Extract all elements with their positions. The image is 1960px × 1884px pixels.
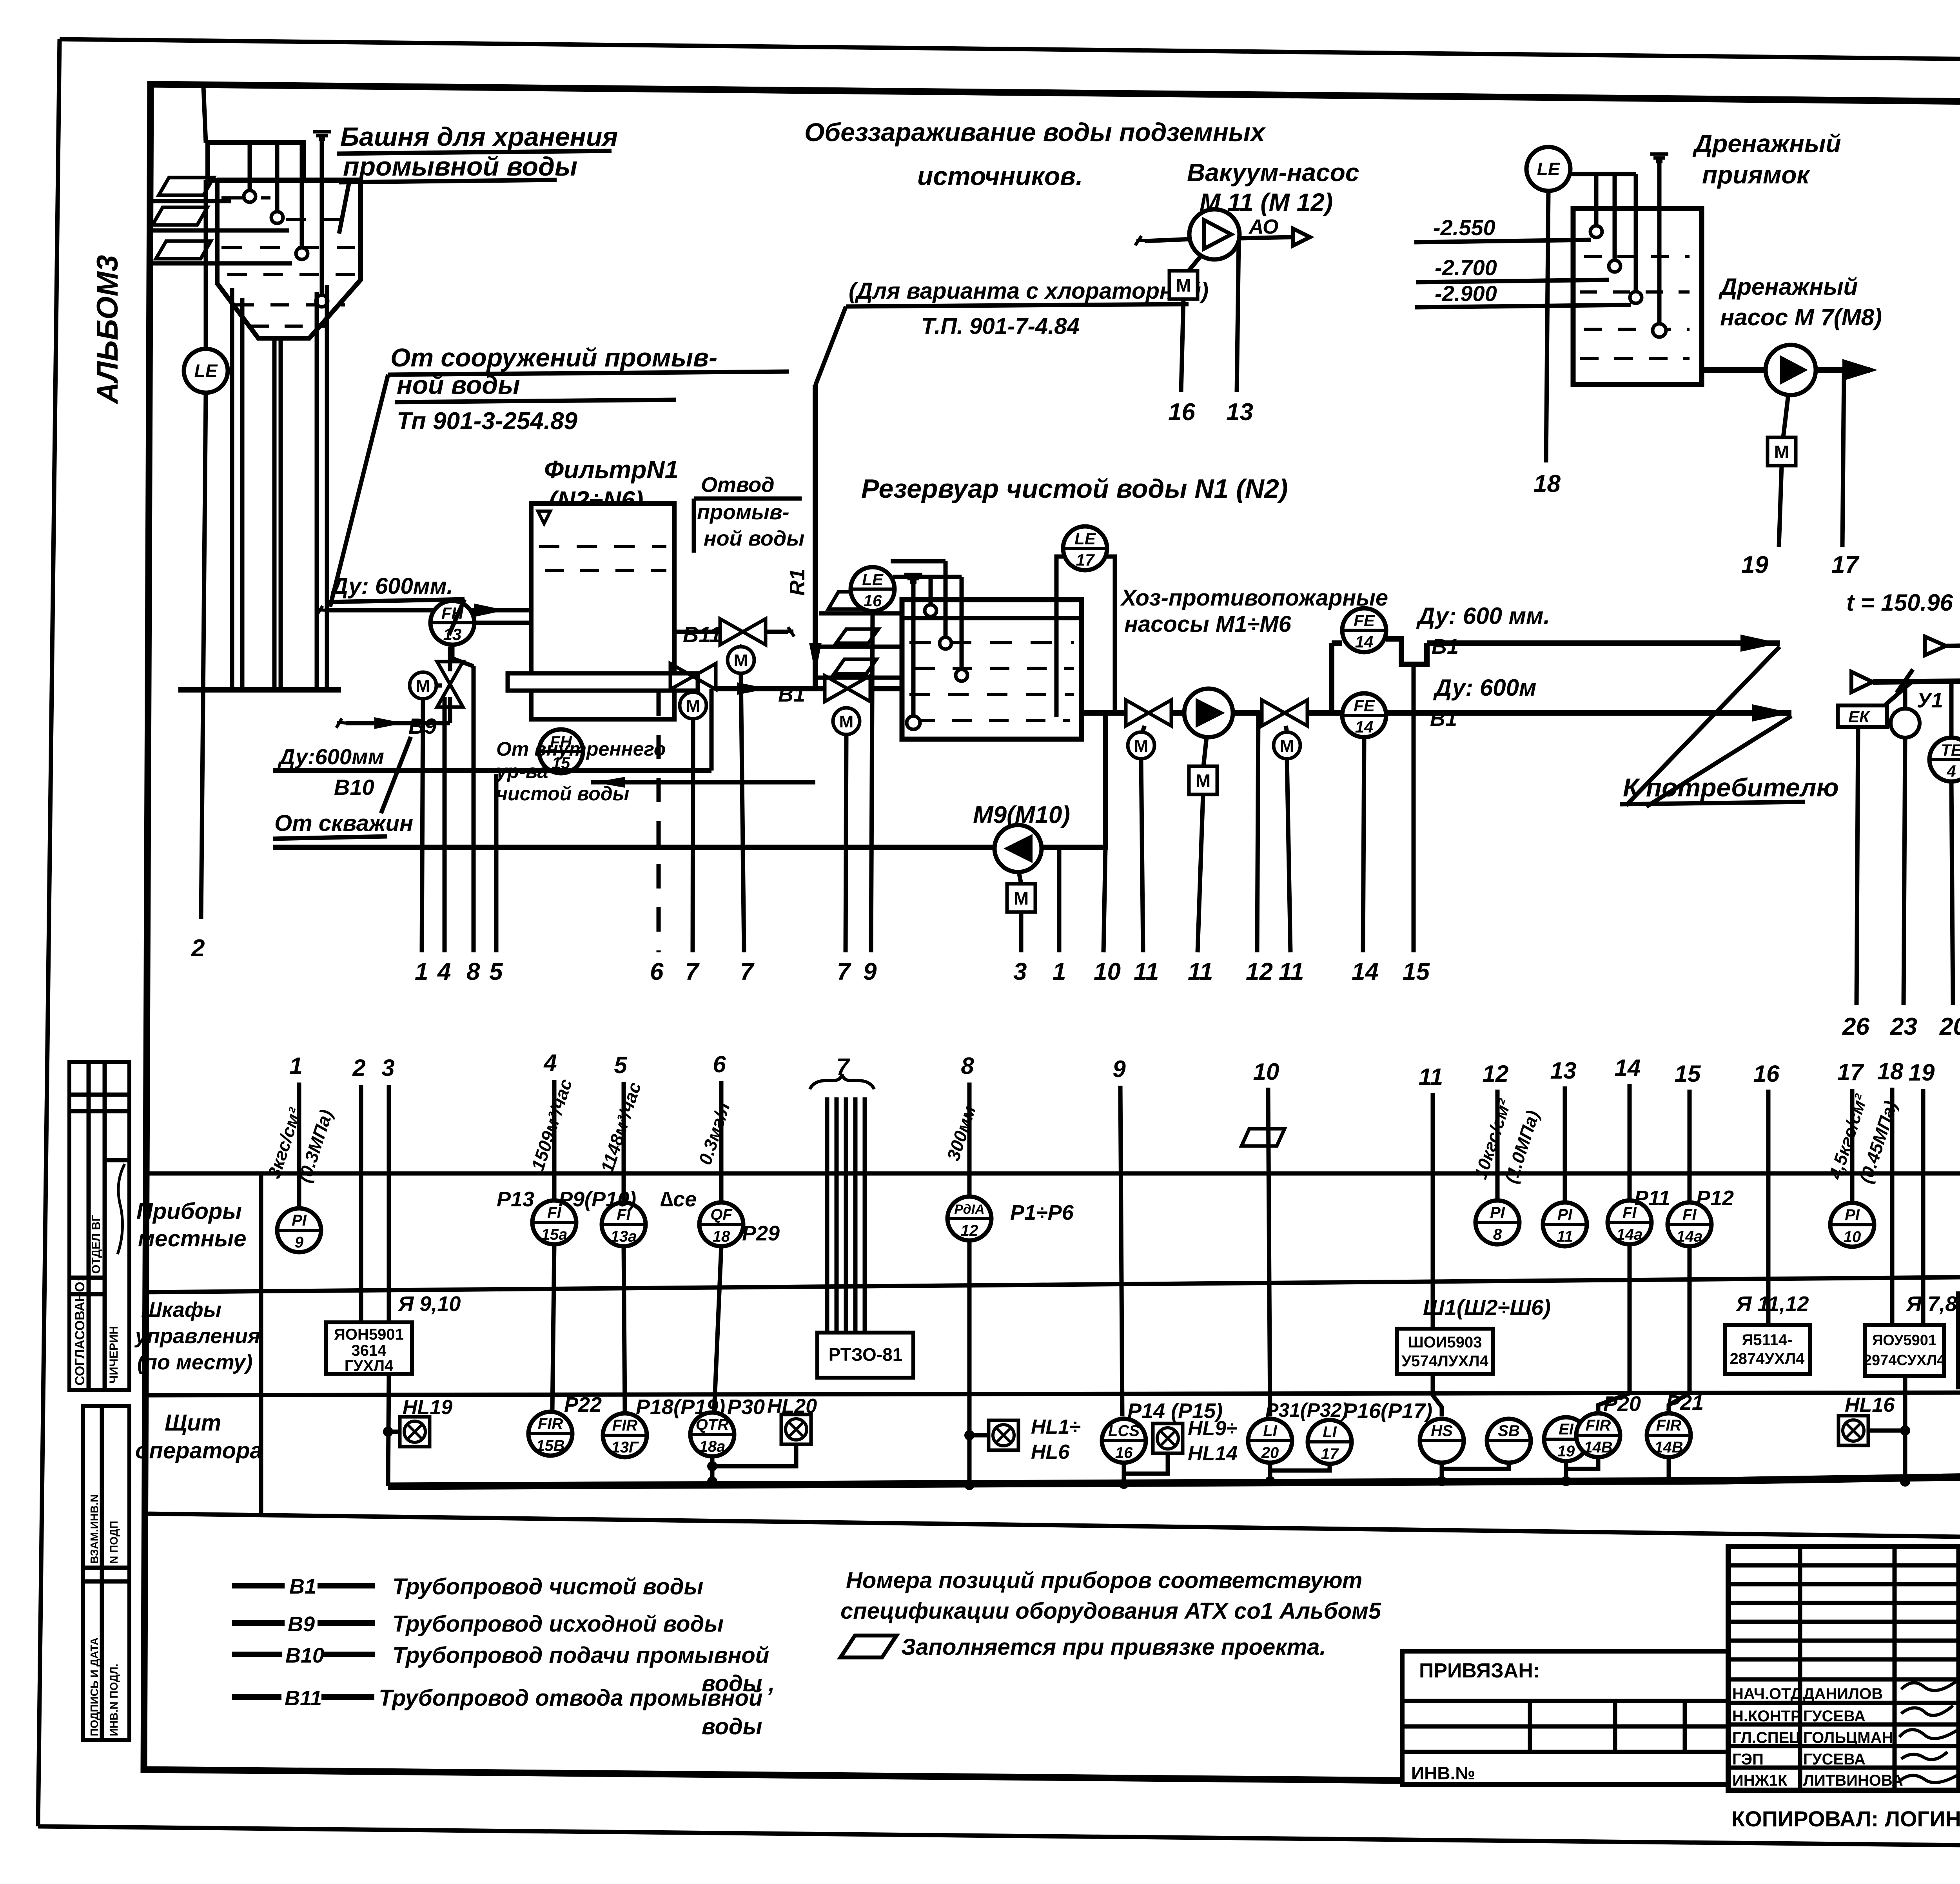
svg-text:В10: В10 [285, 1644, 324, 1667]
svg-text:У574ЛУХЛ4: У574ЛУХЛ4 [1401, 1353, 1488, 1370]
svg-text:В1: В1 [1430, 707, 1457, 731]
legend B10 [232, 1652, 282, 1657]
svg-text:ГУСЕВА: ГУСЕВА [1803, 1708, 1866, 1725]
svg-text:6: 6 [650, 958, 664, 985]
hot inlet arrow [1925, 636, 1946, 655]
svg-text:10: 10 [1253, 1059, 1279, 1085]
svg-text:11: 11 [1419, 1064, 1443, 1090]
svg-text:Р21: Р21 [1666, 1391, 1704, 1414]
wire LE pit down [1546, 192, 1548, 462]
motor M suction valve [1128, 732, 1154, 759]
valve bowtie filter outlet [670, 664, 716, 689]
pump M11 circle [1189, 209, 1240, 259]
pump M9 [995, 825, 1042, 872]
pipe R1 vertical [813, 385, 818, 689]
svg-text:4: 4 [1946, 762, 1956, 780]
leader diagonal [815, 306, 846, 385]
svg-text:Резервуар чистой воды N1 (N2): Резервуар чистой воды N1 (N2) [861, 474, 1288, 504]
motor M filter outlet [680, 692, 706, 719]
outer border left line [38, 39, 60, 1826]
instrument FIR-14В [1576, 1413, 1620, 1457]
svg-text:Трубопровод чистой воды: Трубопровод чистой воды [392, 1574, 703, 1599]
leader [449, 599, 465, 635]
wire 20 [1951, 782, 1953, 1005]
svg-text:13: 13 [1226, 399, 1253, 426]
instrument LE tower [184, 349, 228, 393]
leader EK to damper [1886, 683, 1911, 705]
underline [339, 180, 557, 182]
wire line 11b [1198, 794, 1203, 952]
svg-text:15В: 15В [536, 1437, 564, 1454]
wire line 10 [1103, 847, 1105, 952]
svg-text:18: 18 [713, 1228, 730, 1245]
water dashes pit [1580, 257, 1690, 359]
wire valve stem [741, 645, 742, 647]
svg-text:ЧИЧЕРИН: ЧИЧЕРИН [107, 1326, 120, 1384]
air intake arrow [1851, 672, 1873, 692]
svg-text:12: 12 [1483, 1061, 1509, 1087]
stem [1189, 257, 1200, 271]
svg-text:Р20: Р20 [1603, 1392, 1641, 1416]
leader B9 to well note [381, 737, 411, 813]
pipe B1 lower outgoing [1386, 704, 1791, 722]
svg-text:8: 8 [961, 1053, 974, 1079]
svg-text:HL1÷: HL1÷ [1031, 1416, 1081, 1438]
instrument PI-11 [1543, 1202, 1587, 1246]
water dashes [539, 547, 666, 570]
svg-text:14: 14 [1355, 718, 1374, 736]
svg-text:От внутреннего: От внутреннего [496, 738, 666, 760]
svg-text:HL16: HL16 [1845, 1394, 1895, 1416]
pipe inlet [1145, 239, 1192, 241]
svg-text:LI: LI [1263, 1422, 1277, 1440]
svg-text:Р13: Р13 [497, 1188, 534, 1211]
leader to tank [339, 183, 349, 234]
dip tubes reservoir [929, 577, 933, 605]
svg-text:18а: 18а [699, 1438, 726, 1455]
instrument QTR-18a [690, 1413, 734, 1456]
pipe upper jog [1386, 639, 1427, 664]
instrument LE pit [1526, 147, 1570, 191]
svg-text:Щит: Щит [165, 1410, 221, 1436]
tower support columns [232, 285, 327, 690]
level plate 2 [836, 629, 878, 643]
svg-text:РТЗО-81: РТЗО-81 [829, 1344, 903, 1365]
svg-text:АО: АО [1248, 216, 1278, 238]
svg-text:13а: 13а [611, 1228, 637, 1245]
svg-text:HL14: HL14 [1188, 1442, 1238, 1465]
svg-text:4: 4 [543, 1050, 557, 1076]
instrument FH-13 [430, 601, 474, 645]
svg-text:-2.550: -2.550 [1433, 215, 1495, 240]
svg-text:Н.КОНТР: Н.КОНТР [1732, 1708, 1801, 1725]
svg-text:Р31(Р32): Р31(Р32) [1265, 1399, 1348, 1421]
wire c4 [552, 1080, 557, 1200]
stem [1019, 872, 1021, 884]
leader diagonal to filter feed [330, 375, 388, 607]
wire LE down to 2 [201, 393, 206, 919]
lamp HL1-HL6 [989, 1420, 1018, 1450]
legend B9 [232, 1620, 285, 1626]
svg-text:(Для варианта с хлораторной): (Для варианта с хлораторной) [849, 278, 1209, 304]
svg-text:20: 20 [1261, 1444, 1279, 1462]
instrument LI-17 [1308, 1420, 1352, 1464]
svg-text:Ду: 600мм.: Ду: 600мм. [330, 573, 453, 599]
U link HS SB [1442, 1463, 1509, 1469]
stem [1783, 395, 1788, 437]
svg-text:ИНВ.№: ИНВ.№ [1411, 1763, 1475, 1783]
pipe B1 to reservoir [870, 686, 902, 691]
wire c1 [297, 1083, 301, 1208]
LE16 manifold [891, 561, 962, 577]
lamp HL16 [1838, 1416, 1868, 1445]
svg-text:ИНВ.N ПОДЛ.: ИНВ.N ПОДЛ. [108, 1664, 120, 1736]
ground dip tube pit [1657, 161, 1662, 323]
tank: tower storage tank body [217, 180, 361, 338]
parallelogram note [840, 1636, 897, 1657]
svg-text:10: 10 [1844, 1228, 1861, 1246]
svg-text:ГУСЕВА: ГУСЕВА [1803, 1751, 1866, 1768]
underline [388, 372, 789, 375]
level plate 3 [834, 659, 877, 674]
wire line 14 [1363, 738, 1364, 952]
pipe to FE [1307, 710, 1342, 716]
svg-text:R1: R1 [786, 569, 809, 596]
wire 26 [1857, 727, 1858, 1005]
wire c13 [1563, 1086, 1567, 1202]
svg-text:управления: управления [134, 1324, 260, 1348]
level plate 1 [159, 178, 214, 195]
svg-text:2874УХЛ4: 2874УХЛ4 [1730, 1350, 1805, 1367]
wire LE17 dip [1056, 557, 1115, 717]
svg-text:FIR: FIR [538, 1415, 563, 1432]
svg-text:HL6: HL6 [1031, 1441, 1070, 1463]
wire 17 [1842, 370, 1844, 547]
svg-text:FЕ: FЕ [1354, 611, 1376, 630]
svg-text:ПРИВЯЗАН:: ПРИВЯЗАН: [1419, 1659, 1540, 1682]
svg-text:ЕI: ЕI [1559, 1421, 1574, 1438]
instrument FIR-13Г [603, 1413, 647, 1457]
svg-text:Р9(Р10): Р9(Р10) [559, 1188, 636, 1211]
svg-text:АЛЬБОМ3: АЛЬБОМ3 [91, 255, 124, 404]
cabinet box Я5114 [1725, 1325, 1810, 1374]
pipe upper branch [1332, 640, 1342, 646]
svg-text:промыв-: промыв- [697, 500, 789, 524]
svg-text:От скважин: От скважин [274, 811, 413, 836]
instrument LCS-16 [1102, 1419, 1146, 1463]
svg-text:Дренажный: Дренажный [1718, 274, 1858, 300]
svg-text:В1: В1 [289, 1575, 316, 1598]
svg-text:В9: В9 [288, 1612, 315, 1636]
svg-text:Я 11,12: Я 11,12 [1735, 1292, 1809, 1316]
instrument FI-14a2 [1668, 1202, 1711, 1246]
svg-text:18: 18 [1877, 1058, 1904, 1084]
tank: clean water reservoir [902, 600, 1082, 739]
instrument FE-14 lower [1342, 693, 1386, 737]
svg-text:HL20: HL20 [767, 1395, 817, 1418]
svg-text:Тп 901-3-254.89: Тп 901-3-254.89 [397, 408, 578, 435]
wire line8 [472, 666, 476, 952]
outer border bottom line [38, 1826, 1960, 1851]
tank: tower storage tank cap [208, 143, 304, 180]
svg-text:11: 11 [1279, 958, 1304, 985]
wire c18 [1890, 1088, 1895, 1325]
cabinet box ШОИ5903 [1397, 1329, 1493, 1374]
svg-text:Р12: Р12 [1696, 1186, 1734, 1210]
U link LI pair [1270, 1463, 1330, 1471]
water dashes [221, 198, 355, 326]
signatures squiggles [1899, 1681, 1960, 1782]
svg-text:Ду: 600 мм.: Ду: 600 мм. [1416, 603, 1550, 629]
motor M under B11 valve [728, 647, 754, 673]
svg-text:14: 14 [1355, 633, 1374, 651]
level leader lines [819, 611, 902, 616]
svg-text:В10: В10 [334, 775, 374, 800]
svg-text:9: 9 [863, 958, 877, 985]
wire 16 [1181, 299, 1183, 392]
svg-text:Ш1(Ш2÷Ш6): Ш1(Ш2÷Ш6) [1423, 1295, 1551, 1320]
underline [395, 400, 676, 402]
motor valve M on riser [410, 672, 436, 699]
svg-text:ЛИТВИНОВА: ЛИТВИНОВА [1803, 1772, 1903, 1789]
svg-text:17: 17 [1837, 1059, 1864, 1085]
arrow from internal reservoir [591, 777, 815, 788]
svg-text:7: 7 [740, 958, 755, 985]
wire riser [448, 647, 452, 671]
svg-text:16: 16 [1115, 1444, 1133, 1462]
svg-text:ной воды: ной воды [397, 370, 520, 399]
motor box M7 [1768, 437, 1796, 466]
valve bowtie pump suction [1126, 700, 1171, 726]
dip tubes pit [1594, 174, 1599, 226]
wire line6 dashed [657, 692, 661, 952]
wire box5 down [1903, 1376, 1907, 1481]
valve bowtie B1 motorized [825, 676, 870, 702]
wire LE up [204, 180, 208, 349]
wire c5 [622, 1082, 626, 1202]
actuator U1 [1891, 709, 1920, 738]
svg-text:Р30: Р30 [727, 1395, 765, 1419]
svg-text:9: 9 [1112, 1056, 1126, 1082]
svg-text:QF: QF [710, 1206, 733, 1223]
lamp HL9-HL14 [1153, 1423, 1183, 1453]
svg-text:Хоз-противопожарные: Хоз-противопожарные [1120, 585, 1388, 611]
wire c9 [1120, 1086, 1122, 1416]
svg-text:М9(М10): М9(М10) [973, 801, 1070, 829]
svg-text:14В: 14В [1584, 1439, 1612, 1456]
wire M9 to 3 [1019, 912, 1024, 952]
svg-text:Р11: Р11 [1634, 1186, 1670, 1210]
wire line5 [494, 774, 499, 952]
svg-text:ЯОУ5901: ЯОУ5901 [1872, 1332, 1936, 1349]
lamp HL20 [781, 1414, 811, 1444]
wire c8 [967, 1083, 972, 1197]
svg-text:оператора: оператора [135, 1438, 263, 1463]
svg-text:2: 2 [352, 1055, 365, 1081]
ground level line under tower [178, 687, 341, 693]
ground symbol pit [1650, 154, 1668, 161]
tank top rim line [217, 178, 361, 183]
svg-text:Ду:600мм: Ду:600мм [278, 744, 384, 769]
svg-text:РI: РI [1490, 1204, 1505, 1221]
svg-text:13: 13 [1550, 1057, 1577, 1084]
svg-text:12: 12 [1246, 958, 1273, 985]
level leader 2 [150, 228, 289, 233]
svg-text:Приборы: Приборы [136, 1199, 242, 1224]
svg-text:ур-ва: ур-ва [495, 760, 548, 782]
svg-text:19: 19 [1741, 551, 1768, 578]
svg-text:спецификации оборудования АТХ: спецификации оборудования АТХ со1 Альбом… [840, 1598, 1381, 1624]
branch riser [1329, 643, 1334, 713]
pipe B1 from filter [717, 682, 825, 695]
row separator line 3 [144, 1392, 1960, 1395]
svg-text:5: 5 [614, 1052, 628, 1078]
damper [1896, 669, 1913, 693]
svg-text:2: 2 [191, 935, 205, 962]
underline [273, 836, 387, 839]
svg-text:FIR: FIR [612, 1417, 638, 1434]
instrument PdIA-12 [947, 1197, 991, 1240]
svg-text:15: 15 [1675, 1061, 1701, 1087]
wire line 1b [1057, 847, 1062, 952]
wire valve stub [436, 684, 442, 688]
svg-text:15а: 15а [541, 1226, 568, 1243]
privyazan box [1402, 1651, 1728, 1784]
svg-text:ГУХЛ4: ГУХЛ4 [345, 1357, 394, 1374]
signature names [1732, 1685, 1903, 1789]
svg-text:Обеззараживание воды подземных: Обеззараживание воды подземных [804, 118, 1266, 147]
instrument HS row3 [1420, 1419, 1464, 1463]
pipe [1233, 710, 1262, 716]
svg-text:17: 17 [1831, 551, 1859, 578]
svg-text:9: 9 [295, 1234, 304, 1251]
svg-text:26: 26 [1842, 1013, 1869, 1040]
pipe B10 [273, 768, 711, 773]
lamp HL19 [400, 1417, 430, 1447]
legend B1 [232, 1583, 285, 1588]
ground symbol reservoir [904, 575, 922, 582]
svg-text:FЕ: FЕ [1354, 696, 1376, 715]
wire 13 [1237, 241, 1239, 392]
svg-text:ОТДЕЛ ВГ: ОТДЕЛ ВГ [90, 1215, 103, 1274]
wire line 11a [1141, 759, 1143, 952]
svg-text:10: 10 [1094, 958, 1121, 985]
svg-text:3614: 3614 [352, 1342, 387, 1359]
legend B11 [232, 1694, 281, 1700]
svg-text:8: 8 [1493, 1226, 1502, 1243]
stem TE4 [1949, 682, 1954, 737]
instrument PI-9 [277, 1208, 321, 1252]
underline [329, 599, 465, 602]
wire line 15 [1412, 664, 1416, 952]
svg-text:приямок: приямок [1702, 161, 1811, 189]
svg-text:ТЕ: ТЕ [1941, 741, 1960, 759]
svg-text:чистой воды: чистой воды [496, 783, 629, 805]
wire HL19 stub [388, 1430, 400, 1434]
revision rows [1728, 1565, 1960, 1768]
U link EI FIR [1566, 1457, 1598, 1469]
svg-text:НS: НS [1431, 1422, 1453, 1440]
svg-text:-2.900: -2.900 [1435, 281, 1497, 306]
underline [1620, 802, 1805, 804]
instrument PI-8 [1475, 1200, 1519, 1244]
instrument FI-13a [602, 1202, 646, 1246]
pipe B1 upper outgoing [1427, 635, 1780, 652]
svg-text:11: 11 [1188, 958, 1213, 985]
svg-text:LЕ: LЕ [194, 361, 218, 381]
instrument PI-10 [1830, 1203, 1874, 1247]
instrument FH-15 [539, 729, 583, 773]
instrument FE-14 upper [1342, 608, 1386, 652]
svg-text:1: 1 [415, 958, 428, 985]
wire line1 [422, 700, 423, 952]
svg-text:Трубопровод отвода промывной: Трубопровод отвода промывной [379, 1685, 762, 1711]
instrument SB row3 [1487, 1419, 1531, 1463]
svg-text:14: 14 [1352, 958, 1379, 985]
electrode dip tube 1 [248, 143, 252, 191]
svg-text:7: 7 [685, 958, 700, 985]
svg-text:В11: В11 [683, 622, 722, 647]
instrument QF-18 [699, 1202, 743, 1246]
svg-text:SВ: SВ [1498, 1422, 1520, 1440]
stamp box A (СОГЛАСОВАНО) [69, 1062, 129, 1390]
svg-text:13Г: 13Г [611, 1439, 639, 1456]
level leader 1 [149, 199, 231, 203]
pipe [1171, 710, 1184, 716]
svg-text:16: 16 [864, 591, 882, 610]
valve bowtie vertical [437, 662, 463, 707]
electrode dip tube 2 [275, 143, 279, 212]
tank: drain pit [1573, 209, 1702, 384]
svg-text:t = 150.96 °С: t = 150.96 °С [1846, 589, 1960, 616]
ground symbol on tank [313, 132, 331, 139]
svg-text:LСS: LСS [1108, 1422, 1140, 1440]
svg-text:HL19: HL19 [403, 1396, 452, 1419]
svg-text:12: 12 [961, 1222, 978, 1239]
wire line 7c from outlet M [693, 720, 693, 952]
svg-text:В11: В11 [285, 1686, 322, 1710]
svg-text:Трубопровод исходной воды: Трубопровод исходной воды [392, 1611, 724, 1637]
svg-text:В1: В1 [1432, 635, 1459, 658]
pipe B9 arrow [336, 717, 450, 729]
instrument FI-15a [532, 1200, 576, 1244]
wire line7a [741, 674, 744, 952]
row bottom line [144, 1514, 1960, 1552]
ground dip tube [911, 582, 916, 715]
wire c2 [359, 1085, 363, 1322]
wires QTR HL20 to bus [712, 1444, 796, 1466]
svg-text:От сооружений промыв-: От сооружений промыв- [390, 343, 717, 372]
cabinet box ЯОН5901 [326, 1322, 412, 1374]
svg-text:ГЭП: ГЭП [1732, 1751, 1764, 1768]
stamp box B (ИНВ ПОДПИСЬ ДАТА) [83, 1406, 129, 1740]
box EK [1838, 705, 1887, 727]
wire FH13 branch down [452, 646, 474, 666]
wire c15 [1688, 1090, 1692, 1202]
wire c19 [1921, 1089, 1926, 1325]
svg-text:НАЧ.ОТД.: НАЧ.ОТД. [1732, 1685, 1806, 1703]
svg-text:местные: местные [138, 1226, 247, 1251]
svg-text:Дренажный: Дренажный [1692, 129, 1841, 158]
svg-text:FIR: FIR [1656, 1417, 1682, 1434]
svg-text:2974СУХЛ4: 2974СУХЛ4 [1864, 1352, 1945, 1369]
svg-text:насосы М1÷М6: насосы М1÷М6 [1124, 611, 1292, 637]
electrode dip tube 3 [300, 143, 304, 248]
wire B11 [674, 630, 721, 634]
underline [846, 304, 1189, 306]
header column divider [259, 1173, 263, 1515]
wire line 11c [1287, 759, 1290, 952]
